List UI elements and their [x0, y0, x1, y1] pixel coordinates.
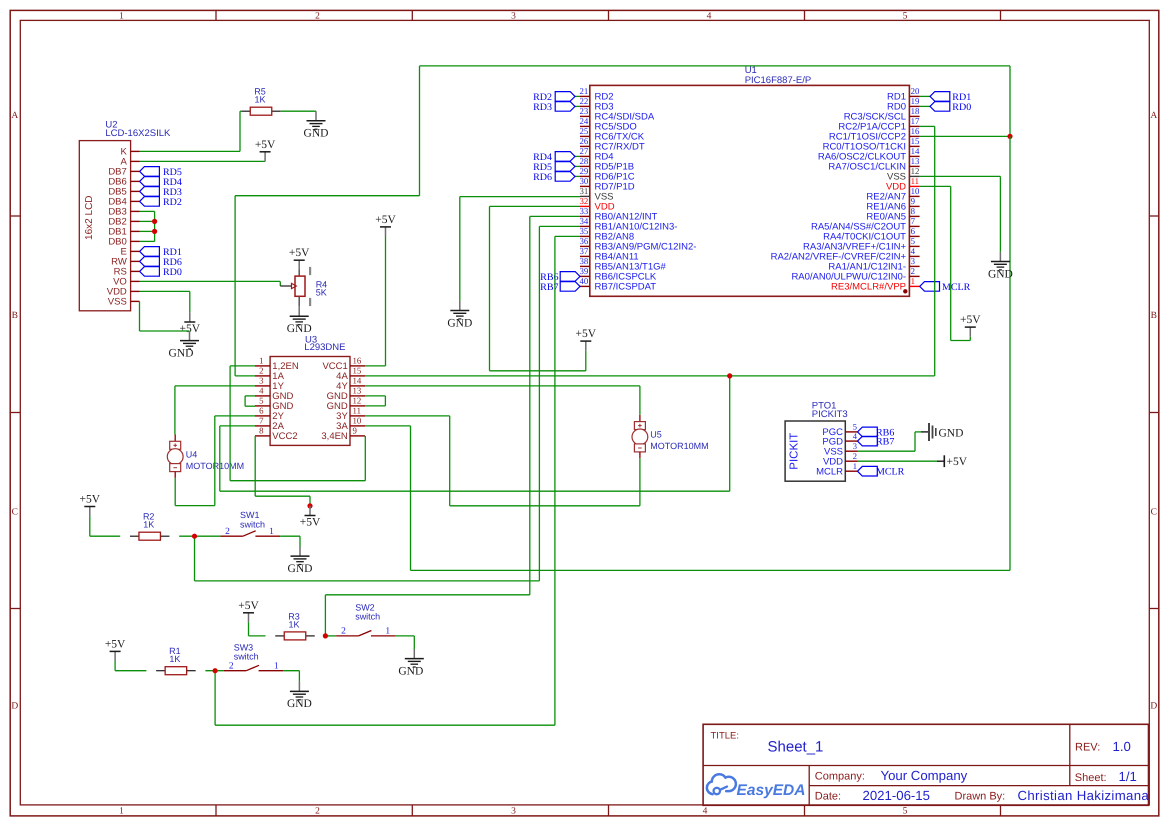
- svg-text:5: 5: [903, 806, 908, 816]
- svg-text:+5V: +5V: [255, 139, 276, 151]
- svg-text:1K: 1K: [254, 95, 265, 105]
- svg-text:GND: GND: [287, 323, 312, 335]
- U1 pin 13 RA7/OSC1/CLKIN: [828, 156, 920, 173]
- svg-text:12: 12: [353, 396, 362, 406]
- svg-text:2: 2: [853, 451, 857, 461]
- U1 pin 40 RB7/ICSPDAT: [580, 276, 657, 293]
- svg-text:14: 14: [353, 376, 362, 386]
- svg-text:25: 25: [580, 126, 589, 136]
- svg-text:A: A: [11, 111, 18, 121]
- ground at U2 VSS: [169, 331, 199, 359]
- wire U3 pin14 4Y to motor U5 top: [365, 386, 640, 415]
- svg-text:Sheet:: Sheet:: [1075, 772, 1107, 784]
- wire U2 VDD to +5V: [140, 291, 190, 312]
- svg-text:Your Company: Your Company: [881, 768, 968, 783]
- svg-text:+5V: +5V: [947, 456, 968, 468]
- wire R3 to SW2: [325, 635, 337, 637]
- junction R3/SW2: [323, 633, 328, 638]
- svg-text:Christian Hakizimana: Christian Hakizimana: [1018, 788, 1150, 803]
- svg-text:VCC2: VCC2: [272, 431, 297, 442]
- ground (sideways) at PTO1 VSS: [921, 423, 963, 441]
- net flag RD0 (U2 RS): [140, 267, 182, 278]
- svg-text:B: B: [12, 311, 18, 321]
- net flag MCLR (U1 pin 1): [920, 282, 971, 293]
- svg-text:D: D: [11, 702, 18, 712]
- svg-text:16: 16: [911, 126, 920, 136]
- U3 pin 6 2Y: [255, 406, 285, 423]
- svg-text:16: 16: [353, 356, 362, 366]
- svg-text:5K: 5K: [316, 288, 327, 298]
- power +5V at U2 VDD (inverted): [180, 312, 201, 335]
- svg-text:switch: switch: [234, 652, 259, 662]
- svg-text:MCLR: MCLR: [876, 467, 905, 478]
- wire U2 K to R5: [140, 111, 242, 151]
- U1 pin 2 RA0/AN0/ULPWU/C12IN0-: [791, 266, 919, 283]
- svg-text:GND: GND: [287, 698, 312, 710]
- U3 pin 9 3,4EN: [321, 426, 365, 443]
- U3 pin 12 GND: [327, 396, 365, 413]
- wire +5V to R1: [115, 661, 146, 671]
- net flag RD6 (U2 RW): [140, 257, 182, 268]
- svg-text:RB7/ICSPDAT: RB7/ICSPDAT: [595, 282, 657, 293]
- svg-text:GND: GND: [939, 427, 964, 439]
- PTO1 pin 4 PGD: [822, 431, 857, 447]
- svg-text:27: 27: [580, 146, 589, 156]
- U1 pin 25 RC6/TX/CK: [580, 126, 645, 143]
- svg-text:2: 2: [315, 806, 320, 816]
- svg-text:20: 20: [911, 86, 920, 96]
- net flag RB7 (PTO1 PGD): [858, 436, 895, 447]
- svg-text:32: 32: [580, 196, 589, 206]
- wire U3 pin3 1Y to motor U4 top: [175, 386, 255, 435]
- svg-text:13: 13: [911, 156, 920, 166]
- net flag RD0 (U1 pin 19): [920, 102, 972, 113]
- svg-text:2: 2: [259, 366, 263, 376]
- ground at SW2: [398, 649, 423, 677]
- svg-text:RD2: RD2: [163, 197, 182, 208]
- motor U4 MOTOR10MM: [167, 435, 244, 478]
- U2 pin DB3: [108, 207, 139, 218]
- power +5V at U3 VCC1: [375, 214, 396, 237]
- svg-text:GND: GND: [988, 268, 1013, 280]
- svg-text:U5: U5: [650, 430, 662, 440]
- U2 pin RS: [114, 267, 140, 278]
- wire PTO1 VSS to GND: [858, 432, 922, 451]
- svg-text:Date:: Date:: [815, 790, 841, 802]
- U3 pin 13 GND: [327, 386, 365, 403]
- svg-text:17: 17: [911, 116, 920, 126]
- junction 4A/2A/RC2: [727, 373, 732, 378]
- svg-text:C: C: [12, 508, 18, 518]
- svg-text:1.0: 1.0: [1113, 739, 1131, 754]
- U1 pin 33 RB0/AN12/INT: [580, 206, 658, 223]
- op-amp U1 PIC16F887-E/P body: [590, 65, 910, 296]
- net flag RB6 (U1 pin 39): [540, 272, 580, 283]
- svg-text:2021-06-15: 2021-06-15: [863, 788, 930, 803]
- U1 pin 34 RB1/AN10/C12IN3-: [580, 216, 678, 233]
- net flag MCLR (PTO1 MCLR): [858, 466, 905, 477]
- wire U3 pins 4-5 GND loop: [245, 396, 255, 406]
- U1 pin 19 RD0: [887, 96, 920, 113]
- U3 pin 11 3Y: [336, 406, 365, 423]
- svg-text:19: 19: [911, 96, 920, 106]
- power +5V (sideways) at PTO1 VDD: [937, 455, 968, 468]
- svg-text:15: 15: [911, 136, 920, 146]
- net flag RD2 (U2 DB4): [140, 197, 182, 208]
- svg-text:RD0: RD0: [163, 267, 182, 278]
- svg-text:switch: switch: [355, 612, 380, 622]
- wire net RC2/CCP1: U1 pin17 to U3 pin15 4A and 2A: [220, 126, 935, 491]
- U1 pin 15 RC0/T1OSO/T1CKI: [823, 136, 920, 153]
- U1 pin 6 RA4/T0CKI/C1OUT: [823, 226, 919, 243]
- U1 pin 23 RC4/SDI/SDA: [580, 106, 655, 123]
- svg-text:36: 36: [580, 236, 589, 246]
- svg-text:+5V: +5V: [576, 328, 597, 340]
- svg-text:GND: GND: [447, 317, 472, 329]
- U1 pin 1 RE3/MCLR#/VPP: [831, 276, 920, 293]
- svg-text:10: 10: [911, 186, 920, 196]
- net flag RD3 (U1 pin 22): [533, 102, 580, 113]
- junction R1/SW3: [213, 668, 218, 673]
- U1 pin 27 RD4: [580, 146, 614, 163]
- svg-text:15: 15: [353, 366, 362, 376]
- svg-text:1: 1: [853, 461, 857, 471]
- svg-text:29: 29: [580, 166, 589, 176]
- svg-text:GND: GND: [398, 665, 423, 677]
- svg-text:+5V: +5V: [375, 214, 396, 226]
- PTO1 pin 2 VDD: [823, 451, 858, 467]
- svg-text:11: 11: [911, 176, 919, 186]
- U3 pin 7 2A: [255, 416, 285, 433]
- ground at SW1: [288, 547, 313, 575]
- svg-text:5: 5: [259, 396, 264, 406]
- U1 pin 18 RC3/SCK/SCL: [844, 106, 920, 123]
- U2 pin VO: [113, 277, 139, 288]
- wire +5V to R3: [249, 622, 266, 636]
- wire U2 DB3-DB0 bus tie: [140, 211, 155, 241]
- power +5V at U3 VCC2 (inverted): [300, 506, 321, 529]
- wire SW1 pin1 to GND: [280, 536, 300, 546]
- svg-text:A: A: [1150, 111, 1157, 121]
- U1 pin 14 RA6/OSC2/CLKOUT: [818, 146, 920, 163]
- svg-text:14: 14: [911, 146, 920, 156]
- svg-text:GND: GND: [288, 563, 313, 575]
- svg-text:30: 30: [580, 176, 589, 186]
- svg-text:3,4EN: 3,4EN: [321, 431, 348, 442]
- svg-text:34: 34: [580, 216, 589, 226]
- svg-text:37: 37: [580, 246, 589, 256]
- svg-text:18: 18: [911, 106, 920, 116]
- U2 pin RW: [111, 257, 139, 268]
- U1 pin 37 RB4/AN11: [580, 246, 639, 263]
- svg-text:8: 8: [259, 426, 264, 436]
- U2 pin DB2: [108, 217, 139, 228]
- U3 pin 16 VCC1: [322, 356, 365, 373]
- svg-text:GND: GND: [304, 128, 329, 140]
- U2 pin DB0: [108, 237, 139, 248]
- svg-text:28: 28: [580, 156, 589, 166]
- svg-text:Sheet_1: Sheet_1: [768, 739, 824, 756]
- svg-text:RE3/MCLR#/VPP: RE3/MCLR#/VPP: [831, 282, 906, 293]
- svg-text:8: 8: [911, 206, 916, 216]
- power +5V above R4: [289, 247, 310, 270]
- U3 pin 5 GND: [255, 396, 294, 413]
- U1 pin 8 RE0/AN5: [866, 206, 919, 223]
- net flag RB7 (U1 pin 40): [540, 282, 580, 293]
- svg-text:23: 23: [580, 106, 589, 116]
- svg-text:1: 1: [119, 12, 124, 22]
- U2 pin E: [120, 247, 139, 258]
- svg-text:16x2 LCD: 16x2 LCD: [84, 195, 95, 239]
- PTO1 pin 5 PGC: [822, 422, 857, 438]
- svg-text:2: 2: [911, 266, 915, 276]
- U2 pin VSS: [108, 297, 140, 308]
- svg-text:2: 2: [315, 12, 320, 22]
- svg-text:+5V: +5V: [289, 247, 310, 259]
- wire PTO1 VDD to +5V: [858, 460, 938, 462]
- wire U3 pins 13-12 GND loop: [365, 396, 385, 406]
- wire U1 pin11 VDD to +5V: [920, 186, 971, 340]
- svg-text:6: 6: [911, 226, 916, 236]
- svg-text:PICKIT: PICKIT: [789, 433, 801, 470]
- motor U5 MOTOR10MM: [632, 415, 709, 458]
- svg-text:RB7: RB7: [876, 437, 894, 448]
- PTO1 pin 1 MCLR: [816, 461, 857, 477]
- svg-text:12: 12: [911, 166, 920, 176]
- U1 pin 30 RD7/P1D: [580, 176, 635, 193]
- svg-text:MOTOR10MM: MOTOR10MM: [650, 441, 708, 451]
- switch SW1: [220, 510, 280, 537]
- svg-text:+5V: +5V: [300, 517, 321, 529]
- svg-text:7: 7: [259, 416, 264, 426]
- title block: [703, 724, 1149, 805]
- svg-text:1: 1: [269, 527, 274, 537]
- U2 pin DB1: [108, 227, 139, 238]
- svg-text:3: 3: [259, 376, 264, 386]
- U1 pin 38 RB5/AN13/T1G#: [580, 256, 667, 273]
- U2 pin VDD: [107, 287, 140, 298]
- svg-text:6: 6: [259, 406, 264, 416]
- net flag RD2 (U1 pin 21): [533, 92, 580, 103]
- U1 pin 39 RB6/ICSPCLK: [580, 266, 657, 283]
- svg-text:1K: 1K: [288, 619, 299, 629]
- svg-text:40: 40: [580, 276, 589, 286]
- wire net RB1: U1 pin34 to SW1/R2 junction: [195, 226, 581, 581]
- svg-text:1K: 1K: [169, 654, 180, 664]
- wire net 3A: U3 pin10 down to bottom rail to pin16 junction: [365, 136, 1010, 570]
- U1 pin 29 RD6/P1C: [580, 166, 635, 183]
- U1 pin 12 VSS: [887, 166, 920, 183]
- U2 LCD-16X2SILK body: [79, 120, 171, 311]
- power +5V at R3: [238, 600, 259, 623]
- U1 pin 22 RD3: [580, 96, 614, 113]
- svg-text:3: 3: [853, 441, 857, 451]
- wire +5V to R2: [90, 516, 120, 536]
- U1 pin 24 RC5/SDO: [580, 116, 637, 133]
- svg-text:REV:: REV:: [1075, 742, 1100, 754]
- svg-text:11: 11: [353, 406, 361, 416]
- power +5V at U1 pin11: [960, 314, 981, 337]
- net flag RD5 (U1 pin 28): [533, 162, 580, 173]
- svg-text:1: 1: [911, 276, 915, 286]
- svg-text:3: 3: [911, 256, 916, 266]
- svg-text:RD0: RD0: [952, 102, 971, 113]
- svg-text:31: 31: [580, 186, 589, 196]
- U2 pin DB7: [108, 167, 139, 178]
- svg-text:MCLR: MCLR: [816, 466, 843, 477]
- svg-text:+5V: +5V: [105, 638, 126, 650]
- svg-text:1K: 1K: [143, 520, 154, 530]
- svg-text:Company:: Company:: [815, 771, 865, 783]
- U1 pin 16 RC1/T1OSI/CCP2: [829, 126, 920, 143]
- connector PTO1 PICKIT3 body: [785, 400, 848, 481]
- wire U1 pin32 VDD to +5V: [490, 206, 586, 370]
- svg-text:PICKIT3: PICKIT3: [812, 409, 848, 420]
- U1 pin 5 RA3/AN3/VREF+/C1IN+: [803, 236, 920, 253]
- junction at U1 pin16 wire: [1007, 134, 1012, 139]
- resistor R5 1K: [241, 87, 281, 116]
- svg-text:4: 4: [703, 806, 708, 816]
- wire net RC1/CCP2: U1 pin16 top rail to U3 pin2 1A: [235, 66, 1010, 376]
- svg-text:1: 1: [274, 662, 279, 672]
- svg-text:21: 21: [580, 86, 589, 96]
- net flag RD1 (U2 E): [140, 247, 182, 258]
- U3 pin 1 1,2EN: [255, 356, 299, 373]
- svg-text:MCLR: MCLR: [942, 282, 971, 293]
- junction VCC2 +5V: [307, 503, 312, 508]
- svg-text:9: 9: [353, 426, 358, 436]
- wire U1 pin31 VSS to GND: [460, 197, 580, 301]
- power +5V at R2: [80, 494, 101, 517]
- wire U3 pin16 VCC1 to +5V: [365, 237, 386, 366]
- U1 pin 7 RA5/AN4/SS#/C2OUT: [811, 216, 920, 233]
- svg-text:35: 35: [580, 226, 589, 236]
- wire SW2 pin1 to GND: [396, 636, 415, 649]
- U1 pin 26 RC7/RX/DT: [580, 136, 645, 153]
- wire R1 to SW3: [205, 670, 223, 672]
- U1 pin 35 RB2/AN8: [580, 226, 635, 243]
- resistor R2 1K: [130, 512, 170, 541]
- svg-text:38: 38: [580, 256, 589, 266]
- net flag RD6 (U1 pin 29): [533, 172, 580, 183]
- U1 pin 10 RE2/AN7: [866, 186, 920, 203]
- ground at SW3: [287, 682, 312, 710]
- svg-text:10: 10: [353, 416, 362, 426]
- svg-text:9: 9: [911, 196, 916, 206]
- wire R2 to SW1: [179, 535, 220, 537]
- wire U3 pin11 3Y to motor U5 bottom: [365, 416, 640, 506]
- U1 pin 36 RB3/AN9/PGM/C12IN2-: [580, 236, 697, 253]
- svg-text:33: 33: [580, 206, 589, 216]
- power +5V at U1 pin32: [576, 328, 597, 351]
- U1 pin 4 RA2/AN2/VREF-/CVREF/C2IN+: [771, 246, 920, 263]
- wire U1 pin12 VSS to GND: [920, 176, 1001, 252]
- svg-text:2: 2: [229, 662, 234, 672]
- U1 pin 31 VSS: [580, 186, 614, 203]
- svg-text:7: 7: [911, 216, 916, 226]
- svg-text:VSS: VSS: [108, 297, 127, 308]
- svg-text:1: 1: [385, 627, 390, 637]
- svg-text:RB7: RB7: [540, 282, 558, 293]
- svg-text:PIC16F887-E/P: PIC16F887-E/P: [745, 75, 812, 86]
- U3 pin 4 GND: [255, 386, 294, 403]
- net flag RD4 (U2 DB6): [140, 177, 182, 188]
- net flag RD1 (U1 pin 20): [920, 92, 972, 103]
- U3 pin 2 1A: [255, 366, 285, 383]
- switch SW3: [224, 642, 284, 671]
- svg-text:switch: switch: [240, 519, 265, 529]
- svg-text:26: 26: [580, 136, 589, 146]
- power +5V at R1: [105, 638, 126, 661]
- U1 pin 3 RA1/AN1/C12IN1-: [828, 256, 919, 273]
- svg-text:C: C: [1151, 508, 1157, 518]
- U3 pin 8 VCC2: [255, 426, 298, 443]
- ground at U1 pin12: [988, 252, 1013, 280]
- svg-text:+5V: +5V: [960, 314, 981, 326]
- U1 pin 17 RC2/P1A/CCP1: [838, 116, 920, 133]
- svg-text:B: B: [1151, 311, 1157, 321]
- U1 pin 32 VDD: [580, 196, 615, 213]
- U2 pin DB6: [108, 177, 139, 188]
- U3 pin 14 4Y: [336, 376, 365, 393]
- wire U2 VO to R4 wiper: [140, 280, 281, 282]
- ground right of R5: [304, 111, 329, 139]
- svg-text:2: 2: [225, 527, 230, 537]
- svg-text:39: 39: [580, 266, 589, 276]
- wire U3 pin1 1,2EN to pin9 3,4EN: [230, 366, 365, 481]
- PTO1 pin 3 VSS: [824, 441, 858, 457]
- ground below R4: [287, 307, 312, 335]
- net flag RD4 (U1 pin 27): [533, 152, 580, 163]
- svg-text:22: 22: [580, 96, 589, 106]
- ground at U1 pin31: [447, 301, 472, 329]
- switch SW2: [336, 602, 396, 636]
- svg-text:L293DNE: L293DNE: [304, 342, 345, 353]
- svg-text:+5V: +5V: [80, 494, 101, 506]
- U3 L293DNE body: [270, 335, 350, 446]
- resistor R3 1K: [275, 611, 315, 640]
- svg-text:1/1: 1/1: [1119, 769, 1137, 784]
- svg-text:U4: U4: [186, 449, 198, 459]
- U1 pin 28 RD5/P1B: [580, 156, 635, 173]
- wire U2 VSS to GND: [140, 301, 190, 331]
- svg-text:4: 4: [911, 246, 916, 256]
- potentiometer R4 5K: [280, 267, 327, 307]
- junction R2/SW1: [192, 534, 197, 539]
- wire U3 pin6 2Y to motor U4 bottom: [175, 416, 255, 506]
- svg-text:TITLE:: TITLE:: [711, 731, 740, 742]
- U1 pin 9 RE1/AN6: [866, 196, 919, 213]
- wire net RB2: U1 pin35 to SW3/R1 junction: [215, 236, 580, 725]
- junction at DB1: [152, 229, 157, 234]
- svg-text:LCD-16X2SILK: LCD-16X2SILK: [105, 128, 171, 139]
- U1 pin 21 RD2: [580, 86, 614, 103]
- svg-text:4: 4: [707, 12, 712, 22]
- junction at DB2: [152, 219, 157, 224]
- net flag RB6 (PTO1 PGC): [858, 427, 895, 438]
- svg-text:D: D: [1150, 702, 1157, 712]
- wire net RB0: U1 pin33 to SW2/R3 junction: [325, 216, 580, 636]
- svg-text:13: 13: [353, 386, 362, 396]
- U3 pin 10 3A: [336, 416, 365, 433]
- U3 pin 15 4A: [336, 366, 365, 383]
- resistor R1 1K: [156, 646, 196, 675]
- wire U2 A to +5V: [140, 160, 266, 162]
- svg-text:4: 4: [259, 386, 264, 396]
- U2 pin DB4: [108, 197, 139, 208]
- U1 pin 11 VDD: [886, 176, 920, 193]
- svg-text:5: 5: [903, 12, 908, 22]
